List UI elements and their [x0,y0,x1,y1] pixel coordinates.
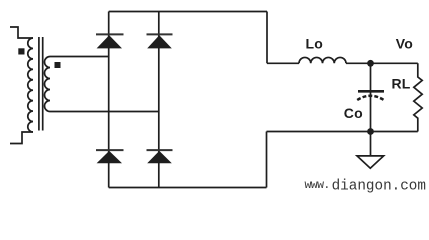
capacitor Co bottom lead [370,93,372,132]
diode D2 [147,35,172,48]
transformer T1 primary bottom lead [10,132,33,144]
transformer T1 core [39,37,43,131]
node ground junction dot [367,128,374,135]
wire top-right drop [266,12,268,64]
wire bridge to inductor [267,62,299,64]
svg-text:Co: Co [344,105,363,121]
diode D4 [147,151,172,163]
wire bottom-right riser [266,132,268,188]
svg-text:Lo: Lo [306,35,324,51]
transformer T1 secondary winding [45,57,51,112]
wire secondary top terminal to bridge left rail [50,56,109,58]
capacitor Co top lead [370,63,372,90]
diode D2 cathode bar [147,33,173,35]
capacitor Co curved bottom plate [357,96,384,100]
transformer T1 secondary polarity dot [55,62,61,68]
diode D3 [97,151,122,163]
inductor Lo [299,57,346,63]
wire inductor to node Vo [346,62,418,64]
capacitor Co top plate [358,90,384,93]
transformer T1 primary top lead [10,27,33,38]
wire bottom bus to load [267,131,418,133]
transformer T1 primary polarity dot [18,48,24,54]
node Vo junction dot [367,60,374,67]
bridge right rail wire [158,12,160,188]
svg-text:Vo: Vo [396,35,413,51]
diode D1 cathode bar [96,33,124,35]
svg-text:RL: RL [392,76,411,92]
transformer T1 primary winding [28,38,33,132]
wire top bus [109,11,267,13]
load resistor RL [414,63,422,131]
wire secondary bottom terminal to bridge right rail [50,111,159,113]
wire ground stub [370,132,372,156]
diode D4 cathode bar [147,149,173,151]
svg-text:www.diangon.com: www.diangon.com [305,178,426,194]
wire bottom bus [109,187,267,189]
ground symbol [357,156,384,168]
diode D3 cathode bar [96,149,124,151]
bridge left rail wire [108,12,110,188]
diode D1 [97,35,122,48]
